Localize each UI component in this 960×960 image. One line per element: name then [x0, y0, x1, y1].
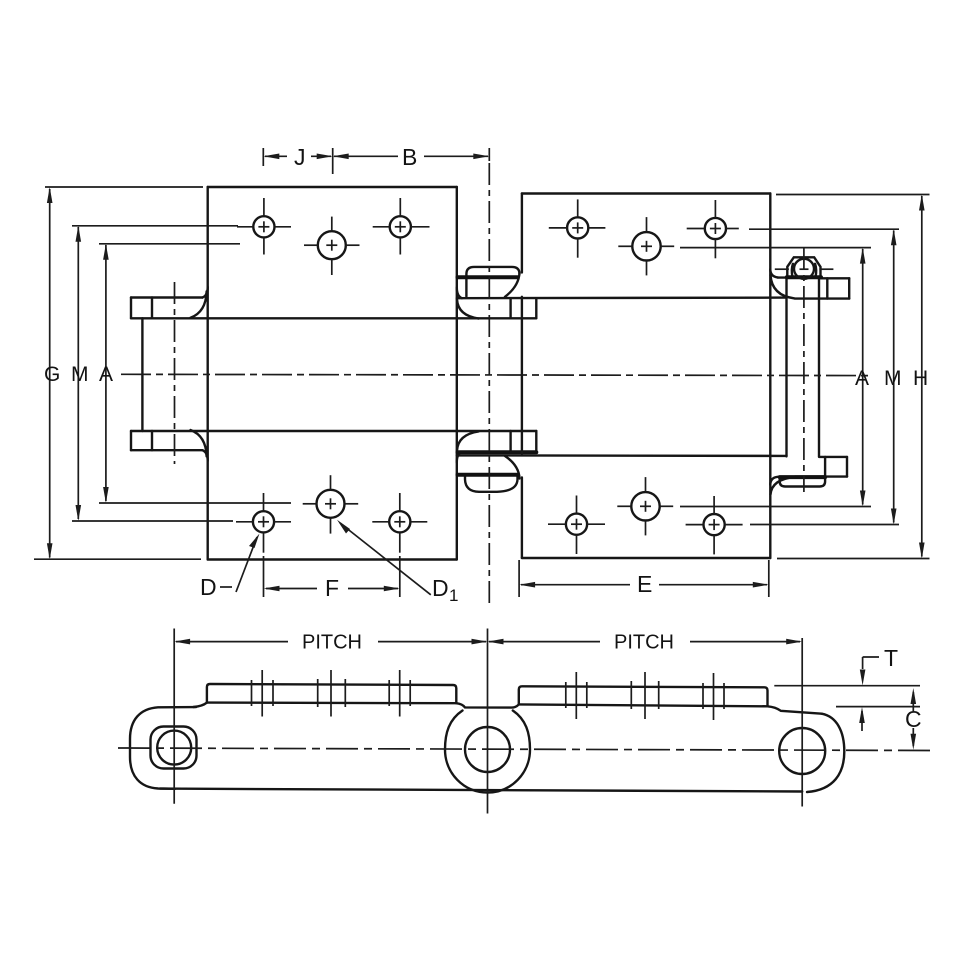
- dimension T (plate thickness): [859, 645, 898, 731]
- dimension J (top): [263, 144, 332, 174]
- left pin center dashed line: [174, 282, 176, 464]
- left end barrel end edge: [141, 318, 143, 431]
- dimension A (left): [99, 244, 291, 503]
- junction top pin cap: [466, 267, 519, 297]
- right end hex nut: [787, 257, 820, 277]
- hole D1 (large) center-top: [304, 217, 360, 275]
- right end pin cross stubs: [775, 268, 834, 270]
- sidebar top edge S-curve at right plate end: [768, 706, 822, 713]
- dip between plates over middle knuckle: [456, 703, 519, 707]
- right attachment plate outline: [522, 194, 770, 559]
- right pitch center line vertical: [801, 638, 803, 807]
- left end cap contour: [130, 707, 196, 789]
- hole small left-bottom of right plate: [548, 496, 605, 555]
- junction bottom pin cap: [465, 456, 520, 492]
- svg-text:H: H: [913, 367, 928, 390]
- sidebar bottom edge: [160, 789, 802, 792]
- junction top cap thick base line: [458, 275, 518, 279]
- hole large center-top of right plate: [618, 217, 674, 275]
- svg-text:G: G: [44, 363, 60, 386]
- dimension PITCH (left span): [174, 632, 487, 654]
- middle pitch center line vertical: [487, 629, 489, 814]
- svg-text:J: J: [294, 144, 306, 170]
- right end bottom cap thick top line: [780, 475, 825, 479]
- hole small left-bottom: [236, 493, 291, 553]
- dimension A (right): [680, 248, 871, 507]
- middle roller circle: [465, 727, 510, 772]
- dimension PITCH (right span): [488, 632, 803, 654]
- right end lower bent flange: [770, 457, 847, 495]
- svg-text:D: D: [432, 575, 449, 601]
- dimension F (bottom of left plate): [264, 556, 400, 601]
- svg-text:D: D: [200, 574, 217, 600]
- right pin center dashed line: [803, 248, 805, 492]
- left end upper bent flange: [131, 287, 208, 318]
- dimension C (plate top to chain centerline): [905, 688, 922, 750]
- dimension G (left overall width): [34, 187, 203, 559]
- hole small right-bottom of right plate: [686, 496, 743, 554]
- left attachment plate strip (side view): [207, 684, 456, 703]
- svg-text:A: A: [855, 367, 869, 390]
- svg-text:F: F: [325, 575, 339, 601]
- left plate fold tangent lines: [131, 318, 536, 431]
- left bushing (rounded square): [151, 727, 197, 769]
- svg-text:PITCH: PITCH: [302, 632, 362, 654]
- svg-text:T: T: [884, 645, 898, 671]
- dimension M (right): [749, 229, 902, 524]
- left attachment plate outline: [208, 187, 457, 560]
- svg-text:M: M: [884, 367, 902, 390]
- right plate bolt hole tick lines (side view): [566, 672, 724, 720]
- left end lower bent flange: [131, 430, 208, 461]
- sidebar top edge left stub and S-curve to left plate: [193, 703, 207, 707]
- dimension M (left): [71, 226, 238, 521]
- hole large center-bottom of right plate: [617, 477, 673, 535]
- hole small right-bottom of left plate: [372, 493, 427, 553]
- right end bottom pin cap: [780, 477, 825, 486]
- right end pin end circle: [794, 259, 814, 279]
- svg-text:M: M: [71, 363, 89, 386]
- right roller circle: [779, 728, 825, 774]
- hole small right-top of right plate: [687, 200, 739, 258]
- side view center line horizontal: [118, 748, 930, 751]
- svg-text:1: 1: [449, 586, 458, 605]
- right end cap contour: [807, 714, 844, 792]
- left pitch center line vertical: [173, 629, 175, 804]
- right end upper bent flange: [770, 269, 849, 298]
- svg-text:C: C: [905, 706, 922, 732]
- junction lower flange of left plate: [457, 431, 787, 462]
- right end pin sides: [787, 278, 820, 457]
- svg-text:PITCH: PITCH: [614, 632, 674, 654]
- leader and label D: [200, 534, 260, 601]
- left plate bolt hole tick lines (side view): [252, 670, 411, 717]
- middle knuckle outline: [445, 711, 530, 793]
- junction lower flange thick bottom edge: [458, 450, 537, 454]
- hole (small) right-top of left plate: [373, 198, 430, 255]
- svg-text:E: E: [637, 571, 652, 597]
- T / C extension lines: [774, 686, 920, 707]
- junction upper flange of left plate: [457, 288, 787, 319]
- hole large center-bottom: [303, 475, 359, 533]
- dimension B (top): [333, 144, 490, 170]
- hole small left-top of right plate: [549, 199, 606, 257]
- right end nut thick base line: [787, 275, 821, 279]
- svg-text:A: A: [99, 363, 113, 386]
- junction bottom cap thick base line: [458, 473, 518, 477]
- right attachment plate strip (side view): [519, 686, 768, 706]
- svg-text:B: B: [402, 144, 417, 170]
- dimension E (bottom of right plate): [519, 560, 769, 597]
- left pin hole circle: [157, 731, 191, 765]
- dimension H (right overall): [776, 195, 930, 559]
- junction pin center dashed line: [488, 163, 490, 607]
- hole D (small) left-top: [237, 198, 291, 255]
- leader and label D1: [337, 520, 458, 605]
- center horizontal dash-dot line (top view): [121, 374, 868, 375]
